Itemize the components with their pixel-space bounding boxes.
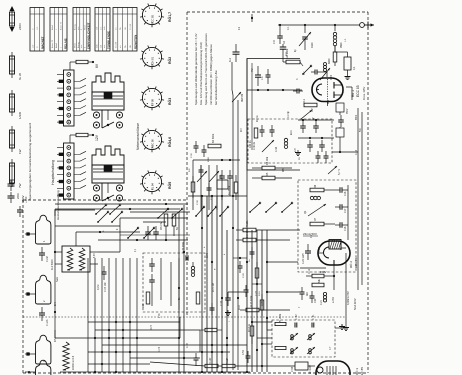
wire tube roe1 anode: [346, 86, 352, 88]
wire right h1: [332, 151, 358, 153]
table magnet: [30, 8, 44, 52]
svg-text:ECH 81: ECH 81: [354, 257, 358, 268]
wire bottom h345: [102, 344, 247, 346]
svg-text:5mA 215V: 5mA 215V: [354, 298, 357, 310]
resistor R13 50k: [312, 283, 324, 287]
switch heater2: [96, 205, 106, 214]
lamp La2: [36, 275, 51, 304]
wire fm3: [247, 89, 302, 91]
svg-text:R.1: R.1: [303, 99, 306, 104]
wire fml2: [192, 160, 194, 210]
capacitor C40: [255, 74, 261, 76]
coil L1 0560: [334, 25, 336, 31]
wire r10: [236, 229, 243, 231]
svg-text:EF 85: EF 85: [360, 367, 364, 375]
svg-text:7W: 7W: [18, 183, 22, 188]
svg-text:f: f: [229, 321, 231, 322]
wire vbus x179: [178, 212, 180, 372]
capacitor C8a: [296, 89, 298, 94]
svg-text:6800: 6800: [328, 58, 331, 64]
svg-text:RELAIS: RELAIS: [63, 38, 67, 49]
svg-text:Ω: Ω: [32, 28, 34, 30]
resistor R12: [312, 274, 324, 278]
svg-text:a: a: [103, 230, 105, 232]
svg-text:MAGNET: MAGNET: [40, 36, 44, 49]
svg-text:C.39: C.39: [211, 195, 213, 200]
svg-text:UB: UB: [130, 45, 132, 48]
svg-text:halb: halb: [104, 25, 106, 30]
svg-text:C.44: C.44: [276, 146, 278, 152]
svg-text:0160: 0160: [311, 42, 314, 48]
capacitor C64: [153, 231, 159, 233]
tube socket Roe3: [142, 88, 161, 107]
wire right v2: [361, 112, 363, 285]
resistor Rb1: [255, 268, 259, 278]
svg-text:RÖ 2: RÖ 2: [349, 261, 353, 268]
svg-text:C.36: C.36: [191, 153, 193, 158]
capacitor C24: [310, 295, 315, 297]
capacitor C78: [194, 357, 199, 359]
svg-text:voll: voll: [97, 26, 99, 30]
ground gif: [341, 324, 343, 327]
svg-text:C.14: C.14: [356, 149, 358, 155]
wire roe2 gnd: [345, 253, 347, 325]
resistor Rfm1: [191, 182, 195, 192]
wire bl2: [98, 251, 120, 253]
svg-text:LJ.64: LJ.64: [333, 297, 335, 303]
resistor R17 100k: [246, 308, 259, 312]
wire mid join1: [267, 261, 298, 263]
wire trf top: [75, 232, 77, 246]
dashed border left lower: [22, 200, 24, 373]
wire roe2 b: [333, 265, 335, 276]
svg-text:k: k: [224, 253, 226, 255]
svg-text:C.55: C.55: [291, 366, 294, 372]
wire heater h240: [98, 239, 188, 241]
svg-text:Hauptschaltung: Hauptschaltung: [51, 160, 55, 185]
svg-text:C.38: C.38: [197, 200, 199, 205]
resistor R71: [146, 292, 150, 304]
dashed mixer box: [248, 119, 332, 163]
svg-text:Spannungen und Widerstände gem: Spannungen und Widerstände gemessen bei …: [194, 33, 198, 105]
wire bl3: [55, 209, 95, 211]
resistor Rb3: [205, 328, 217, 331]
coil Tif3: [290, 347, 298, 354]
svg-text:RENKTON: RENKTON: [133, 35, 137, 49]
svg-text:··: ··: [103, 12, 105, 14]
dashed osc box: [298, 180, 356, 272]
wire g1: [298, 119, 334, 121]
capacitor C101 220n: [10, 180, 12, 184]
capacitor C1n3: [39, 312, 45, 314]
coil LJ64: [323, 292, 326, 295]
svg-text:1W: 1W: [18, 149, 22, 154]
svg-text:TONBLENDE: TONBLENDE: [106, 31, 110, 49]
resistor R6: [310, 188, 324, 192]
wire bl horiz: [55, 337, 180, 339]
svg-text:6800: 6800: [208, 156, 210, 162]
svg-text:RÖ 3: RÖ 3: [355, 368, 359, 375]
wire mid join4: [257, 337, 272, 339]
svg-text:Abfall: Abfall: [55, 42, 58, 48]
wire mid h: [188, 195, 247, 197]
wire vbus x184: [183, 205, 185, 372]
svg-text:Spannungsangaben bei Geräteb: Spannungsangaben bei Gerätebestückung au…: [28, 122, 32, 200]
resistor R41: [234, 182, 238, 193]
capacitor C10: [300, 125, 306, 127]
dashed main border top: [187, 11, 368, 13]
wire r45a: [252, 167, 262, 169]
coil mixer: [284, 138, 287, 141]
capacitor Cfm1: [199, 169, 204, 171]
resistor R134: [222, 364, 235, 367]
svg-text:R6: R6: [314, 184, 317, 188]
capacitor Cfm2: [207, 187, 212, 189]
capacitor Cif2: [311, 323, 313, 328]
tube socket Roe5: [142, 172, 161, 191]
capacitor C63: [145, 231, 151, 233]
svg-text:EABC 80: EABC 80: [151, 139, 155, 150]
svg-text:··: ··: [80, 12, 82, 14]
svg-text:Anzug: Anzug: [73, 24, 76, 30]
svg-text:FM: FM: [251, 69, 254, 72]
capacitor Cb2: [244, 289, 249, 291]
svg-text:··: ··: [73, 12, 75, 14]
svg-text:220n: 220n: [16, 192, 20, 199]
wire roe2 c: [228, 291, 246, 293]
svg-text:150V: 150V: [320, 270, 327, 274]
svg-text:2n: 2n: [249, 259, 251, 262]
svg-text:RÖ5: RÖ5: [168, 182, 172, 189]
resistor R52: [275, 346, 286, 349]
svg-text:C.74: C.74: [159, 346, 161, 352]
dashed border bottom: [23, 372, 368, 374]
svg-text:L.1: L.1: [344, 38, 347, 42]
capacitor C5b: [266, 74, 271, 76]
coil D6 10000: [63, 342, 69, 370]
svg-text:C17: C17: [344, 208, 347, 213]
wire bottom h372: [60, 371, 250, 373]
dashed main border left upper: [186, 12, 188, 317]
wire mid join2: [267, 291, 300, 293]
svg-text:mit Röhrenvoltmeter (Ri = 10MΩ: mit Röhrenvoltmeter (Ri = 10MΩ) gegen Ma…: [209, 44, 213, 105]
svg-text:C.8: C.8: [295, 148, 297, 152]
svg-text:1/2W: 1/2W: [18, 112, 22, 119]
svg-text:Wickl: Wickl: [74, 43, 76, 48]
capacitor C2: [233, 51, 240, 53]
wire c55: [258, 365, 295, 367]
svg-text:RÖ2: RÖ2: [168, 57, 172, 64]
svg-text:C.2M: C.2M: [46, 256, 49, 262]
svg-text:1: 1: [42, 240, 46, 242]
svg-text:ECC 85: ECC 85: [356, 85, 360, 97]
capacitor C7a: [260, 129, 265, 131]
lamp La1: [36, 215, 51, 244]
table renkton: [113, 8, 137, 52]
svg-text:R.17 100k: R.17 100k: [250, 295, 253, 307]
capacitor C37 500: [225, 297, 231, 299]
capacitor C18: [339, 222, 341, 228]
dashed divider y317: [23, 316, 345, 318]
wire g2: [298, 137, 334, 139]
wire lamp feed: [54, 210, 56, 338]
lamp La4: [36, 360, 51, 375]
svg-text:··: ··: [95, 12, 97, 14]
resistor Rb2: [260, 300, 264, 310]
wire bh2: [130, 357, 200, 359]
wire if link1: [266, 318, 268, 330]
svg-text:0,1: 0,1: [135, 248, 137, 252]
svg-text:TA: TA: [124, 45, 127, 48]
wire bus a: [232, 95, 234, 370]
svg-text:C.37: C.37: [220, 300, 223, 306]
svg-text:F.2: F.2: [239, 26, 241, 30]
wire ratio1: [151, 288, 153, 306]
svg-text:R.10k: R.10k: [246, 220, 249, 227]
capacitor C22 1n25: [305, 250, 311, 252]
table empfindlichkeit: [73, 8, 90, 52]
capacitor C72: [149, 279, 155, 281]
wire fml1: [193, 159, 240, 161]
svg-text:R.137: R.137: [209, 357, 212, 364]
svg-text:aus: aus: [81, 45, 83, 48]
svg-text:C.47 10n: C.47 10n: [104, 282, 107, 292]
lamp La3: [36, 335, 51, 364]
switch block S2 12V: [69, 135, 71, 143]
wire heater h235: [120, 234, 190, 236]
svg-text:C.9: C.9: [273, 40, 276, 44]
svg-text:C.28: C.28: [243, 273, 245, 278]
switch lever bl2: [98, 212, 108, 222]
svg-text:C.9 4p: C.9 4p: [288, 111, 290, 118]
wire bus x137: [136, 258, 138, 372]
svg-text:R.73: R.73: [151, 324, 153, 330]
svg-text:R.134: R.134: [226, 357, 229, 364]
trimmer C5 0160: [304, 25, 306, 33]
svg-text:g: g: [214, 268, 216, 270]
ground g30: [347, 74, 349, 77]
svg-text:1n: 1n: [299, 157, 301, 160]
svg-text:R7: R7: [314, 217, 317, 221]
trimmer 60ohm: [232, 92, 241, 102]
coil Tif2: [307, 333, 315, 340]
capacitor C4: [282, 44, 284, 47]
wire if link2: [262, 343, 272, 345]
svg-text:Rö 1: Rö 1: [351, 90, 355, 97]
dashed IF box: [272, 320, 335, 357]
svg-text:RÖ3: RÖ3: [168, 98, 172, 105]
svg-text:6800: 6800: [356, 114, 358, 120]
svg-text:C.23: C.23: [256, 290, 258, 296]
svg-text:Anker 30: Anker 30: [59, 21, 62, 30]
resistor R61 MS: [164, 214, 168, 226]
resistor R1: [304, 103, 317, 107]
wire if1: [335, 327, 342, 329]
switch block S1 6V: [69, 62, 71, 70]
capacitor C7b: [270, 129, 275, 131]
fuse Si3: [11, 90, 13, 116]
svg-text:aus: aus: [78, 27, 80, 30]
ground g37: [227, 310, 229, 313]
coil Tif4: [307, 347, 315, 354]
svg-text:F.7: F.7: [329, 346, 332, 350]
svg-text:··: ··: [118, 12, 120, 14]
capacitor C15: [338, 119, 344, 121]
svg-text:TA: TA: [119, 27, 122, 30]
dashed main border right: [367, 12, 369, 373]
svg-text:··: ··: [30, 12, 32, 14]
coil Tif1: [290, 333, 298, 340]
wire busx2: [252, 283, 262, 285]
resistor R62: [172, 214, 176, 226]
svg-text:ECC 85: ECC 85: [151, 14, 155, 24]
svg-text:C16: C16: [344, 191, 347, 196]
svg-text:1n 350V: 1n 350V: [228, 185, 231, 195]
svg-text:2: 2: [81, 28, 83, 30]
wire bh1: [88, 351, 230, 353]
svg-text:R5: R5: [265, 172, 269, 176]
resistor R51 263k: [275, 322, 286, 325]
wire roe2 a: [300, 267, 326, 269]
capacitor C12: [307, 144, 313, 146]
svg-text:R4 30k: R4 30k: [265, 156, 269, 165]
svg-text:1:3: 1:3: [261, 76, 264, 80]
svg-text:AM 300k: AM 300k: [285, 48, 289, 59]
svg-text:6,3V: 6,3V: [94, 253, 96, 258]
capacitor C36: [194, 145, 199, 147]
capacitor C9 K3: [279, 25, 281, 36]
switch top mid: [250, 203, 260, 212]
wire heater h212: [130, 211, 190, 213]
table tonblende: [95, 8, 110, 52]
trimmer mixer: [262, 140, 274, 152]
wire bus b: [237, 100, 239, 370]
wire fm down1: [231, 62, 233, 90]
tube socket Roe4.6: [142, 130, 161, 149]
svg-text:0,1: 0,1: [353, 66, 356, 70]
svg-text:50k: 50k: [318, 278, 321, 283]
svg-text:10000 Ω D.6: 10000 Ω D.6: [72, 355, 75, 370]
svg-text:C..61: C..61: [313, 314, 315, 320]
coil L70: [191, 266, 194, 269]
wire heater h220: [55, 225, 120, 227]
svg-text:EMPFINDLICHKEIT: EMPFINDLICHKEIT: [86, 22, 90, 49]
tube Roe3 EF85: [316, 361, 350, 375]
capacitor C39: [227, 175, 233, 177]
resistor R9: [336, 128, 344, 137]
svg-text:7: 7: [299, 306, 301, 308]
wire fm6: [334, 45, 336, 52]
svg-text:··: ··: [77, 12, 79, 14]
wire heater h204: [55, 203, 188, 205]
tuner box: [247, 59, 300, 171]
svg-text:C.21: C.21: [321, 299, 323, 305]
tube socket Roe2: [142, 47, 161, 66]
svg-text:K3: K3: [283, 40, 286, 44]
resistor R11 1W: [243, 238, 256, 242]
wire bottom h330: [95, 329, 200, 331]
capacitor Cb1: [238, 265, 243, 267]
tube Roe1 ECC85: [312, 78, 343, 102]
capacitor C6: [314, 70, 316, 75]
svg-text:MS 1W: MS 1W: [160, 221, 163, 230]
svg-text:51 263k: 51 263k: [280, 313, 282, 322]
wire bot1: [150, 362, 205, 366]
svg-text:Q1: Q1: [304, 210, 307, 214]
svg-text:C.76: C.76: [187, 342, 189, 348]
wire osc r: [347, 185, 349, 240]
svg-text:0,1M: 0,1M: [97, 285, 100, 290]
tube socket Roe1.7: [142, 5, 161, 24]
switch heater: [158, 209, 168, 218]
wire bottom h322: [88, 321, 180, 323]
capacitor C2M: [39, 252, 45, 254]
wire bl verticals: [87, 258, 89, 372]
svg-text:160: 160: [142, 303, 145, 308]
resistor AM 300k: [286, 60, 300, 64]
svg-text:··: ··: [50, 12, 52, 14]
resistor Rm: [254, 128, 258, 138]
svg-text:Nebenanschlüsse: Nebenanschlüsse: [136, 123, 140, 150]
svg-text:aus: aus: [100, 27, 102, 30]
capacitor C19a: [316, 155, 321, 157]
wire fml3: [221, 184, 223, 200]
svg-text:MW 89: MW 89: [240, 93, 244, 102]
capacitor C103 +400: [19, 206, 21, 210]
svg-text:R.12: R.12: [308, 268, 311, 274]
svg-text:C.22 1n25: C.22 1n25: [303, 253, 305, 264]
svg-text:5,7 V: 5,7 V: [337, 169, 341, 175]
switch fm s1: [196, 207, 204, 216]
resistor R18: [250, 326, 254, 336]
fuse Si4: [11, 126, 13, 152]
svg-text:1: 1: [60, 46, 62, 48]
svg-text:C.52: C.52: [243, 349, 245, 355]
capacitor C38: [219, 175, 225, 177]
capacitor Cif1: [294, 323, 296, 328]
arrow 5.7V: [328, 166, 337, 174]
dashed ratio box: [143, 253, 205, 312]
svg-text:voll: voll: [100, 44, 102, 48]
svg-text:UB: UB: [125, 27, 127, 30]
wire r45b: [252, 177, 262, 179]
transformer Tr1: [62, 246, 90, 272]
fuse Si5: [11, 159, 13, 187]
svg-text:bzw. 12V und Wechselspannungsm: bzw. 12V und Wechselspannungsmessung UKW…: [199, 42, 203, 105]
wire mid join3: [252, 321, 272, 323]
svg-text:h: h: [204, 246, 206, 248]
svg-text:··: ··: [55, 12, 57, 14]
svg-text:1W 10k: 1W 10k: [246, 229, 249, 238]
capacitor C52b: [246, 355, 251, 357]
trimmer fm t1: [197, 171, 207, 182]
svg-text:··: ··: [123, 12, 125, 14]
wire heater h209: [55, 208, 180, 210]
capacitor C102 250V: [10, 192, 12, 196]
coil 0660: [324, 63, 327, 66]
svg-text:··: ··: [99, 12, 101, 14]
coil Q core: [310, 196, 313, 199]
resistor R137: [205, 364, 218, 367]
svg-text:ECC: ECC: [291, 130, 293, 135]
capacitor C11: [313, 125, 319, 127]
resistor R5 10k: [262, 176, 275, 180]
svg-text:halb: halb: [97, 43, 99, 48]
fuse Si2: [11, 52, 13, 78]
wire midl: [143, 221, 166, 223]
svg-text:4p: 4p: [295, 49, 297, 52]
capacitor C35b: [202, 149, 207, 151]
